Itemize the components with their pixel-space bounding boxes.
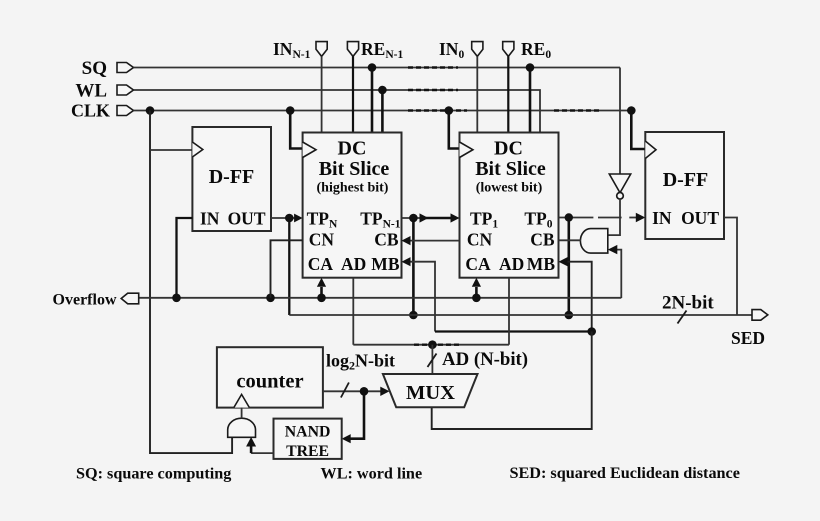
bus slash AD N-bit [428,354,437,368]
svg-text:DC: DC [338,138,367,160]
input port WL [117,85,134,95]
svg-text:IN: IN [200,209,220,229]
wire MUX output loop to MB node [432,332,592,430]
svg-text:(highest bit): (highest bit) [317,181,389,196]
input pin RE 0 [503,42,514,133]
junction CLK to slice N clock [286,106,303,148]
svg-text:CN: CN [467,230,493,250]
wire MB feedback horizontal [435,330,592,332]
svg-text:AD (N-bit): AD (N-bit) [442,349,528,370]
wire AD bus horizontal [353,340,509,374]
wire slice0 CN to slice N CB [402,236,460,245]
junction CLK to D-FF1, long vertical to bottom AND [146,106,232,453]
wire D-FF1 OUT to slice N TPN [271,214,303,223]
wire OUT junction down to SED bus [288,218,290,315]
svg-text:counter: counter [236,371,303,393]
block DC Bit Slice highest bit [303,133,402,278]
svg-text:OUT: OUT [681,208,719,228]
svg-text:CB: CB [530,230,555,250]
junction Overflow to slice 0 CA [472,278,481,302]
svg-text:CA: CA [308,254,334,274]
junction WL to slice N [378,86,387,133]
svg-text:AD: AD [341,254,366,274]
svg-text:CB: CB [374,230,399,250]
wire junction down to NAND TREE input [342,391,364,443]
flip-flop U2 D-FF right [645,132,724,239]
wire TP0 junction, dashed wire to D-FF2 IN [559,213,646,222]
input pin IN 0 [472,42,483,133]
wire Overflow line [140,297,622,299]
junction Overflow to D-FF1 IN [172,294,181,303]
wire MB feedback into slice N MB [402,257,436,331]
block NAND TREE [274,419,342,460]
svg-text:WL: WL [75,81,107,102]
input pin IN N-1 [316,42,327,133]
wire MB0 from feedback node [559,257,597,336]
wire TP N-1 to TP 1 with junction and arrows [402,213,460,222]
svg-text:MB: MB [527,254,556,274]
wire TP junction down to SED bus [409,218,418,319]
AND gate U4 below counter [228,408,256,438]
svg-text:CA: CA [465,254,491,274]
wire Overflow line up into AND gate input [608,245,622,298]
svg-text:SED: squared Euclidean distanc: SED: squared Euclidean distance [510,464,740,482]
output port SED [752,310,768,321]
wire slice0 CB to AND gate [559,239,582,241]
svg-text:(lowest bit): (lowest bit) [476,181,543,196]
wire CLK horizontal [134,110,632,112]
svg-text:2N-bit: 2N-bit [662,293,714,314]
svg-text:SED: SED [731,328,765,348]
inverter on SQ line [608,68,631,236]
wire NAND TREE output up into AND gate [246,437,273,453]
wire SED 2N-bit bus [289,314,752,316]
svg-text:AD: AD [499,254,524,274]
junction SQ to slice N [368,63,377,132]
svg-text:MB: MB [371,254,400,274]
svg-text:SQ: square computing: SQ: square computing [76,465,231,483]
svg-text:IN: IN [652,208,672,228]
svg-text:Bit Slice: Bit Slice [319,158,390,180]
wire TP0 junction down to SED bus [565,218,574,320]
wire WL horizontal, corner down into slice 0 top [134,90,541,133]
wire counter output to MUX with slash and junction [323,383,390,398]
block counter [217,347,323,407]
svg-text:DC: DC [494,138,523,160]
svg-text:SQ: SQ [82,58,107,79]
input port CLK [117,106,134,116]
bus slash 2N-bit [678,311,687,324]
block DC Bit Slice lowest bit [460,133,559,278]
svg-text:CN: CN [309,230,335,250]
svg-text:MUX: MUX [406,382,455,404]
wire slice N AD down to AD bus [352,278,354,345]
svg-text:log2N-bit: log2N-bit [326,351,395,373]
wire SQ horizontal [134,67,621,69]
wire D-FF2 OUT down to SED [724,218,737,316]
svg-text:WL: word line: WL: word line [321,465,423,483]
junction CLK to slice 0 clock [445,106,460,148]
wire slice 0 AD down to AD bus [508,278,510,345]
output port Overflow [121,293,139,304]
svg-text:TREE: TREE [286,443,329,460]
junction SQ to slice 0 [526,63,535,132]
svg-text:Bit Slice: Bit Slice [475,158,546,180]
junction CLK corner to D-FF2 clock [627,106,645,149]
svg-text:NAND: NAND [285,424,331,441]
junction Overflow to slice N CN [266,240,302,302]
svg-text:Overflow: Overflow [53,292,117,309]
AND gate U3 [580,229,607,254]
input pin RE N-1 [347,42,358,133]
svg-text:OUT: OUT [228,209,266,229]
input port SQ [117,63,134,73]
mux MUX1 [383,374,478,407]
junction Overflow to slice N CA [317,278,326,302]
flip-flop U1 D-FF left [192,127,271,231]
svg-text:D-FF: D-FF [663,169,709,191]
svg-text:CLK: CLK [71,101,110,121]
wire D-FF1 IN from Overflow line [177,218,193,298]
svg-text:D-FF: D-FF [209,166,255,188]
